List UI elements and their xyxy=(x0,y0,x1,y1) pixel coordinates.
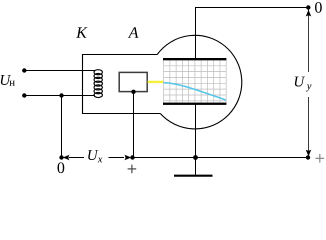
U_x dimension arrow right (points right) xyxy=(109,157,125,159)
junction dot on U_n lower wire xyxy=(59,93,63,97)
label U_n (heater voltage) xyxy=(1,75,11,85)
label U_y xyxy=(295,77,305,87)
trace curve on screen (cyan) xyxy=(164,83,226,100)
U_y dimension arrow lower segment (points down to +) xyxy=(308,97,310,155)
electron beam (yellow) from anode to screen xyxy=(148,81,164,83)
wire: bottom plate down to ground xyxy=(195,104,197,175)
junction dot on bottom rail xyxy=(193,155,198,160)
U_y dimension arrow upper segment (points up to 0) xyxy=(308,10,310,73)
CRT bulb (tube envelope) xyxy=(157,35,242,129)
terminal dot 0 (U_x left) xyxy=(59,155,63,159)
deflection plate (top) xyxy=(163,58,226,60)
label U_x xyxy=(88,150,98,160)
anode box A xyxy=(119,72,147,91)
junction dot at anode bottom xyxy=(131,90,135,94)
terminal dot: U_n top xyxy=(22,68,26,72)
terminal dot 0 (top right) xyxy=(306,5,310,9)
wire: top plate up and right to terminal 0 xyxy=(196,8,309,59)
label 0 (top right) xyxy=(315,2,322,13)
terminal dot: U_n bottom xyxy=(22,93,26,97)
CRT neck (tube body) xyxy=(83,55,161,114)
label K (cathode) xyxy=(76,27,88,37)
screen grid xyxy=(163,60,226,103)
screen background xyxy=(163,59,226,103)
terminal dot + (bottom right) xyxy=(306,155,310,159)
ground bar xyxy=(174,175,213,177)
deflection plate (bottom) xyxy=(163,103,226,105)
label + (bottom right) xyxy=(316,154,325,163)
bottom rail wire (+ net) xyxy=(133,157,309,159)
wire: top-left terminal to heater coil top xyxy=(24,70,95,72)
wire: junction on U_n lower wire down to 0 terminal xyxy=(61,96,63,158)
heater coil (cathode K) xyxy=(94,70,102,98)
wire: bottom-left terminal to heater coil bottom xyxy=(24,95,95,97)
U_x dimension arrow left (points left) xyxy=(63,155,70,161)
label A (anode) xyxy=(128,27,139,38)
label 0 (bottom left) xyxy=(58,162,65,173)
wire: anode down to + terminal on bottom rail xyxy=(133,92,135,158)
label + (under U_x right terminal) xyxy=(128,165,137,174)
terminal dot + (U_x right) xyxy=(130,155,134,159)
